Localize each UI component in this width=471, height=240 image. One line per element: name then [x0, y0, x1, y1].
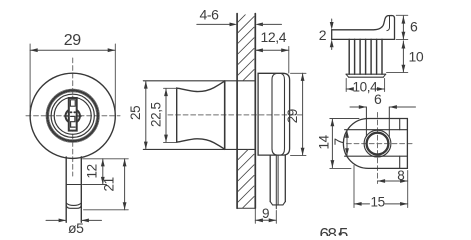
sleeve top line / dia25 extension	[143, 80, 255, 82]
base strip bottom	[349, 76, 384, 78]
dimension 10 arrow up	[402, 41, 406, 49]
nut outline	[343, 119, 407, 169]
dimension 8 line	[378, 180, 408, 182]
sleeve bottom line / dia25 extension	[143, 148, 255, 150]
body shoulder line	[281, 74, 285, 155]
dimension 29 extension line right	[114, 44, 116, 111]
dimension 10,4 arrow left	[346, 87, 354, 91]
dimension 4-6 leader right	[262, 23, 282, 25]
dimension 15 arrow left	[354, 202, 362, 206]
dimension 9 extension right	[275, 211, 277, 224]
dimension 8 arrow right	[400, 179, 408, 183]
nut horizontal center line	[347, 143, 413, 145]
dimension 29 extension line left	[29, 44, 31, 111]
front view outer circle (lock face, dia 29)	[30, 73, 115, 158]
dimension 6 cam arrow up	[402, 16, 406, 24]
keyway boss circle	[66, 109, 80, 123]
dimension 22,5 arrow up	[164, 89, 168, 97]
svg-text:25: 25	[128, 106, 143, 120]
dimension 4-6 arrow right-pointing	[230, 23, 238, 27]
dimension dia5 line left	[46, 219, 66, 221]
dimension 4-6 leader left	[197, 23, 231, 25]
nut corner notch top	[399, 119, 401, 130]
dimension 14 arrow up	[331, 119, 335, 127]
dimension 14 extension top	[330, 118, 359, 120]
pin right edge	[284, 155, 286, 202]
extension line at circle bottom	[83, 158, 129, 160]
dimension 14 extension bottom	[330, 167, 351, 169]
dimension 9 extension left	[254, 208, 256, 223]
dimension 6 cam line	[402, 16, 404, 39]
dimension 29 body arrow up	[301, 73, 305, 81]
dimension 10 extension bottom	[387, 71, 408, 73]
svg-text:22,5: 22,5	[148, 102, 163, 127]
svg-text:7: 7	[332, 138, 347, 145]
pin middle line b	[277, 155, 279, 205]
dimension 7 arrow up	[345, 130, 349, 138]
body outline	[258, 73, 290, 155]
dimension 12 arrow down	[101, 177, 105, 185]
dimension 12,4 arrow left	[255, 48, 263, 52]
base strip right chamfer	[383, 74, 385, 77]
extension line at stem end	[84, 209, 129, 211]
front view vertical center line	[72, 58, 74, 176]
dimension 10,4 line left stub	[346, 88, 353, 90]
dimension 15 extension left	[353, 166, 355, 208]
knob face line	[176, 88, 178, 142]
dimension 12 arrow up	[101, 159, 105, 167]
dimension 2 upper line	[331, 19, 333, 22]
stem right edge	[80, 157, 82, 223]
body inner sleeve line	[272, 74, 277, 155]
inner ring circle	[54, 97, 91, 134]
dimension 29 body extension bottom	[291, 154, 307, 156]
knob bottom profile	[177, 139, 225, 149]
keyway S-shaped ward	[71, 116, 76, 127]
svg-text:9: 9	[262, 206, 269, 221]
extension line at stem step	[83, 184, 107, 186]
panel rear face	[254, 14, 256, 209]
dimension 10,4 arrow right	[377, 87, 385, 91]
nut slot right edge / 6 extension	[388, 107, 390, 137]
dimension 29 body extension top	[291, 72, 307, 74]
cam plate bottom edge	[332, 38, 395, 40]
dimension 14 line	[331, 119, 333, 168]
dimension 12 line	[102, 159, 104, 185]
dimension 6 cam arrow down	[402, 32, 406, 40]
keyway inner dots	[71, 111, 76, 113]
dimension 22,5 arrow down	[164, 135, 168, 143]
dimension 15 arrow right	[400, 202, 408, 206]
nut slot left edge / 6 extension	[365, 107, 367, 137]
dimension 21 arrow down	[123, 202, 127, 210]
dimension 22,5 extension bottom	[164, 141, 177, 143]
cam hook inner line	[387, 16, 390, 31]
dimension 9 arrow left	[255, 218, 263, 222]
dimension dia5 line right	[81, 219, 101, 221]
svg-text:12: 12	[85, 164, 100, 178]
keyway slot rectangle	[69, 98, 77, 131]
dimension 29 line	[30, 49, 115, 51]
dimension 15 line right stub	[385, 203, 408, 205]
dimension 6 nut line right	[389, 106, 415, 108]
dimension 21 line	[124, 159, 126, 210]
dimension 14 arrow down	[331, 160, 335, 168]
dimension 29 arrow left	[30, 48, 38, 52]
svg-text:29: 29	[285, 109, 300, 123]
nut hole outer circle	[364, 130, 391, 157]
dimension 7 line	[346, 130, 348, 156]
panel bottom edge	[237, 207, 255, 209]
dimension 2 arrow up	[330, 39, 334, 47]
dimension 25 arrow up	[144, 81, 148, 89]
pin left edge	[269, 155, 271, 202]
dimension 10 line	[402, 41, 404, 73]
panel front face	[236, 14, 238, 209]
side view axis center line	[168, 114, 304, 116]
dimension 6 nut line left	[350, 106, 366, 108]
pin middle line a	[275, 155, 277, 209]
nut corner notch bottom	[399, 156, 401, 168]
svg-text:6: 6	[410, 18, 418, 34]
nut step line bottom	[345, 155, 408, 157]
dimension 12,4 extension right	[288, 47, 290, 74]
dimension 6 nut arrow pointing right	[359, 105, 367, 109]
stem tip chamfer	[66, 203, 81, 205]
dimension 10 arrow down	[402, 65, 406, 73]
svg-text:ø5: ø5	[68, 220, 84, 236]
keyway inner top rectangle	[70, 100, 75, 106]
dimension 25 line	[145, 81, 147, 149]
dimension 10,4 line right stub	[378, 88, 385, 90]
svg-text:6: 6	[374, 91, 382, 107]
svg-text:12,4: 12,4	[261, 29, 287, 45]
part number decimal dot	[339, 232, 342, 235]
dimension 4-6 arrow left-pointing	[255, 23, 263, 27]
dimension 22,5 extension top	[164, 87, 177, 89]
dimension 22,5 line	[165, 89, 167, 143]
dimension 8 extension right	[407, 171, 409, 208]
dimension 25 arrow down	[144, 142, 148, 150]
knurled ring outer thin circle	[46, 89, 99, 142]
svg-text:2: 2	[319, 27, 327, 43]
svg-text:68.5: 68.5	[320, 225, 348, 237]
svg-text:8: 8	[397, 168, 404, 183]
stem tip inner line	[66, 205, 81, 208]
base strip left chamfer	[346, 74, 349, 77]
ribbed block verticals	[349, 39, 382, 74]
svg-text:15: 15	[371, 194, 385, 209]
dimension 7 arrow down	[345, 148, 349, 156]
stem cross line	[66, 184, 81, 186]
dimension 29 body arrow down	[301, 148, 305, 156]
dimension 12,4 arrow right	[281, 48, 289, 52]
keyway side bar right	[77, 115, 82, 117]
dimension 12,4 line	[255, 49, 288, 51]
dimension 2 lower line	[331, 48, 333, 50]
dimension dia5 arrow left	[59, 219, 67, 223]
dimension 15 line left stub	[354, 203, 370, 205]
panel hatching	[230, 6, 254, 221]
base strip top	[346, 73, 386, 75]
knurled ring (serrated)	[47, 91, 98, 142]
collar front face	[224, 81, 226, 149]
svg-text:29: 29	[64, 32, 81, 49]
face ring circle	[51, 94, 94, 137]
dimension 9 line	[255, 219, 276, 221]
knurled ring inner thin circle	[49, 92, 97, 140]
cam plate left face	[331, 30, 333, 40]
dimension 10,4 extension right	[384, 79, 386, 92]
nut step line top	[345, 129, 408, 131]
svg-text:14: 14	[316, 134, 331, 149]
cam plate top edge and hook	[332, 16, 395, 40]
stem left edge	[65, 157, 67, 222]
dimension 29 body line	[302, 73, 304, 155]
dimension 9 arrow right	[269, 218, 277, 222]
keyway side bar left	[64, 115, 69, 117]
dimension 2 arrow down	[330, 22, 334, 30]
nut vertical center line	[377, 113, 379, 184]
dimension 21 arrow up	[123, 159, 127, 167]
svg-text:21: 21	[101, 177, 116, 191]
nut hole inner circle	[367, 133, 389, 155]
dimension 6 cam extension bottom	[396, 39, 408, 41]
dimension 29 arrow right	[108, 48, 116, 52]
dimension dia5 arrow right	[81, 219, 89, 223]
dimension 8 arrow left	[378, 179, 386, 183]
dimension 6 cam extension top	[396, 14, 408, 16]
dimension 10,4 extension left	[345, 79, 347, 92]
front view horizontal center line	[26, 115, 120, 117]
knob top profile	[177, 81, 225, 91]
svg-text:4-6: 4-6	[200, 7, 220, 23]
pin tip chamfer	[270, 202, 285, 205]
dimension 6 nut arrow pointing left	[389, 105, 397, 109]
svg-text:10: 10	[409, 49, 424, 65]
